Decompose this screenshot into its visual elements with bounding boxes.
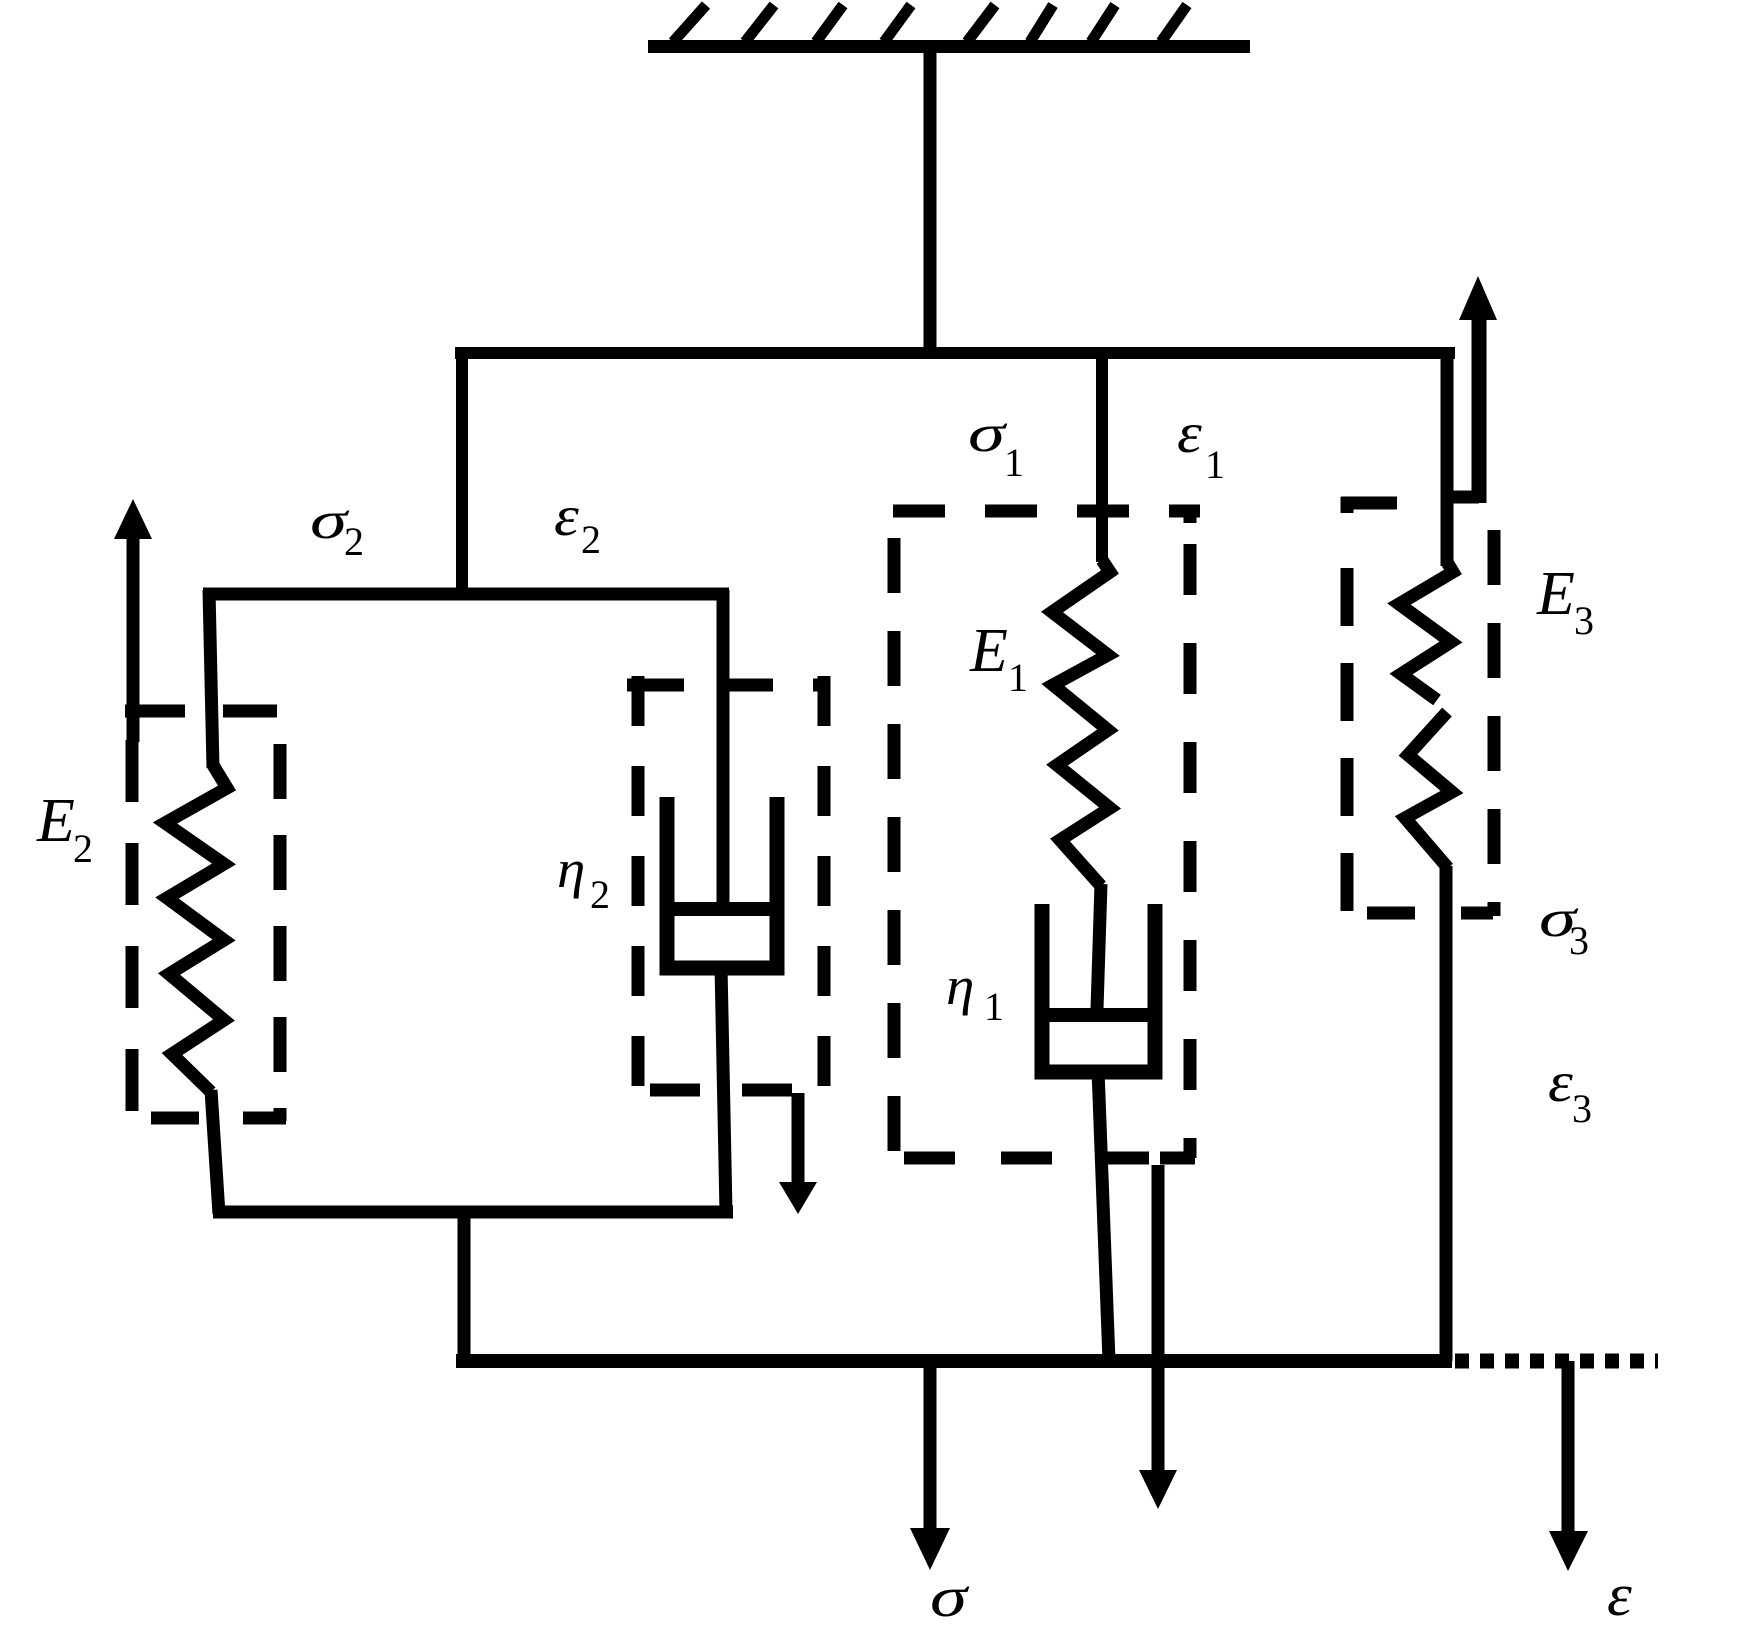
svg-text:1: 1: [1205, 442, 1225, 487]
arrow up at E2 box (sigma2 direction): [127, 535, 140, 742]
svg-text:E: E: [969, 617, 1008, 685]
arrow sigma (applied stress): [924, 1368, 937, 1532]
svg-text:1: 1: [1008, 655, 1028, 700]
svg-text:η: η: [557, 840, 585, 899]
arrow epsilon (strain): [1562, 1361, 1575, 1535]
arrow up (sigma3 direction): [1472, 318, 1487, 503]
node Kelvin box bottom edge: [213, 1206, 733, 1219]
dashed box around eta2 top edge: [627, 679, 830, 692]
spring E3 upper part: [1399, 562, 1453, 700]
svg-text:E: E: [1536, 560, 1575, 628]
wire Kelvin box left edge: [209, 590, 213, 768]
svg-text:ε: ε: [1607, 1562, 1633, 1628]
wire Kelvin bottom connector: [458, 1212, 471, 1361]
svg-text:3: 3: [1572, 1086, 1592, 1131]
dashed box around E2 left edge: [126, 740, 139, 1121]
dashed box around E2 right edge: [274, 744, 287, 1121]
wire below spring E2: [211, 1090, 219, 1214]
wire dotted extension of bottom bus: [1455, 1354, 1658, 1369]
wire Maxwell drop from top bus: [1096, 353, 1108, 562]
dashed box around eta2 right edge: [818, 676, 831, 1088]
dashed box around E3 right edge: [1488, 530, 1501, 916]
ground hatch marks: [673, 5, 1187, 42]
svg-text:1: 1: [984, 984, 1004, 1029]
spring E1: [1052, 560, 1110, 886]
dashed box around E2 top edge: [125, 705, 277, 718]
dashed box around eta2 left edge: [632, 676, 645, 1088]
wire below spring E3: [1440, 866, 1453, 1361]
dashed box around E3 left edge: [1341, 497, 1354, 513]
svg-text:2: 2: [344, 519, 364, 564]
svg-text:ε: ε: [554, 484, 579, 548]
svg-text:ε: ε: [1548, 1050, 1573, 1114]
wire hanger from ground to top bus: [924, 46, 937, 353]
arrow down long (Maxwell strain): [1152, 1165, 1165, 1470]
dashpot eta2 piston plate: [664, 902, 779, 916]
dashpot eta1 cylinder: [1042, 904, 1155, 1072]
dashed box around eta2 bottom edge: [650, 1084, 795, 1097]
spring E3 lower part: [1405, 712, 1452, 868]
svg-text:σ: σ: [968, 405, 1008, 464]
dashed box around E3 bottom edge: [1367, 907, 1493, 920]
svg-text:2: 2: [73, 826, 93, 871]
dashed box around Maxwell element right edge: [1184, 506, 1197, 523]
svg-text:1: 1: [1004, 440, 1024, 485]
wire top bus: [455, 347, 1455, 359]
dashpot eta2 cylinder: [667, 797, 777, 968]
wire dashpot eta1 rod lower: [1098, 1070, 1109, 1361]
dashed box around Maxwell element left edge: [888, 511, 901, 1158]
svg-text:3: 3: [1574, 598, 1594, 643]
dashed box around Maxwell element bottom edge: [904, 1152, 1149, 1165]
wire Kelvin box right edge (dashpot rod upper): [717, 590, 730, 909]
svg-text:σ: σ: [930, 1566, 969, 1628]
wire between spring E1 and dashpot eta1: [1097, 884, 1101, 1009]
svg-text:E: E: [36, 787, 75, 855]
arrow down at eta2 box: [792, 1093, 805, 1186]
spring E2: [165, 765, 227, 1092]
svg-text:η: η: [946, 957, 974, 1016]
ground (fixed support bar): [648, 40, 1250, 53]
wire left drop to Kelvin box: [456, 353, 468, 600]
wire dashpot eta2 rod lower: [721, 966, 726, 1212]
svg-text:3: 3: [1569, 918, 1589, 963]
dashed box around Maxwell element top edge: [893, 505, 1200, 518]
node Kelvin box top edge: [203, 588, 729, 601]
dashpot eta1 piston plate: [1046, 1008, 1148, 1022]
svg-text:2: 2: [581, 517, 601, 562]
svg-text:2: 2: [590, 872, 610, 917]
wire jog to up arrow: [1447, 491, 1479, 504]
dashed box around E3 top edge: [1341, 497, 1397, 510]
svg-text:ε: ε: [1177, 401, 1202, 465]
wire bottom bus: [456, 1354, 1452, 1368]
wire right drop from top bus: [1441, 347, 1454, 566]
dashed box around E2 bottom edge: [151, 1112, 286, 1125]
